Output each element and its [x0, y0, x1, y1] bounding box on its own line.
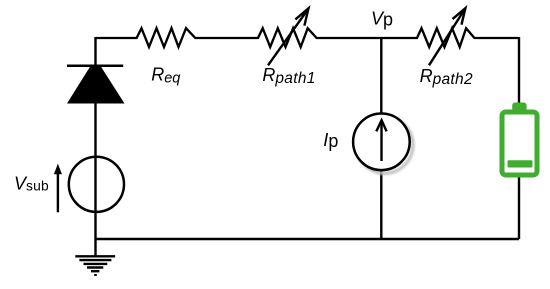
svg-text:Ip: Ip — [323, 130, 338, 151]
svg-text:Vsub: Vsub — [14, 174, 49, 194]
svg-text:Rpath1: Rpath1 — [262, 65, 315, 87]
svg-text:Req: Req — [151, 65, 180, 87]
svg-text:Rpath2: Rpath2 — [420, 66, 473, 88]
svg-text:Vp: Vp — [371, 8, 393, 29]
